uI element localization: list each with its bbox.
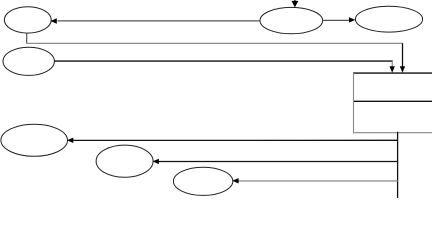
wire E3 to E4: [323, 19, 351, 21]
wire E2 to rect: [54, 60, 392, 62]
rectangle divider: [353, 100, 432, 102]
arrowhead into E3 top: [292, 1, 299, 8]
node E5 (bottom-left ellipse): [1, 124, 68, 156]
arrowhead into E6: [153, 159, 159, 164]
node E3 (top-middle ellipse): [260, 7, 323, 33]
wire vertical drop at x392: [391, 61, 393, 68]
wire branch to E5: [73, 139, 399, 141]
node E4 (top-right ellipse): [355, 6, 422, 32]
wire vertical drop at x402: [402, 43, 404, 68]
wire E1 elbow horizontal to rect: [26, 42, 403, 44]
arrowhead into rect top (right): [400, 66, 405, 72]
arrowhead into E4: [349, 17, 355, 22]
rectangle left edge: [353, 73, 355, 133]
wire trunk below rect: [397, 132, 399, 198]
node E7 (bottom ellipse): [173, 167, 232, 195]
arrowhead into rect top (left): [390, 66, 395, 72]
arrowhead into E7: [232, 178, 238, 183]
node E6 (bottom-middle ellipse): [96, 145, 153, 177]
arrowhead into E5: [67, 138, 73, 143]
rectangle top edge: [353, 72, 432, 74]
wire E3 to E1: [58, 20, 261, 22]
node E2 (left second ellipse): [3, 47, 54, 75]
wire branch to E7 (gray): [238, 180, 398, 182]
arrowhead into E1: [50, 18, 56, 23]
wire branch to E6: [159, 161, 399, 163]
wire E1 bottom stub: [26, 33, 28, 43]
wire top edge into E3: [294, 0, 296, 3]
node E1 (top-left ellipse): [4, 7, 51, 33]
rectangle bottom edge: [353, 132, 432, 134]
